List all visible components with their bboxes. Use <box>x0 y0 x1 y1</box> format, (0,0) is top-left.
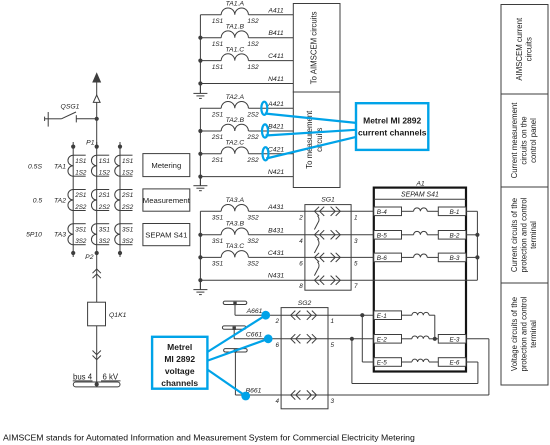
svg-text:1S2: 1S2 <box>122 170 134 177</box>
protection terminal A1 outline <box>374 180 466 371</box>
svg-text:2S1: 2S1 <box>74 192 86 199</box>
svg-text:3S2: 3S2 <box>247 261 259 268</box>
collector wire section TA1 <box>199 15 201 94</box>
SG2 row 2 contacts <box>281 334 328 343</box>
disconnect switch QSG1 <box>45 112 99 127</box>
svg-text:2S2: 2S2 <box>246 157 259 164</box>
junction E-6 return on pin5 wire <box>350 337 354 341</box>
svg-text:Metrel: Metrel <box>167 342 192 352</box>
coil E-5 <box>402 359 439 362</box>
CT TA3.C secondary winding <box>221 243 248 257</box>
svg-text:B-2: B-2 <box>450 232 460 239</box>
svg-text:1S1: 1S1 <box>75 158 86 165</box>
svg-text:TA3.B: TA3.B <box>226 221 245 228</box>
CT TA1.C secondary winding <box>221 46 248 60</box>
busbar bus 4, 6 kV <box>73 372 121 387</box>
junction on collector row B411 <box>198 36 202 40</box>
SG1 linkage hook 1 <box>314 216 319 230</box>
svg-text:E-1: E-1 <box>377 313 387 320</box>
svg-text:N421: N421 <box>268 169 284 176</box>
svg-text:bus 4: bus 4 <box>73 372 93 381</box>
pin 31 of TA3.B <box>212 238 223 245</box>
wire and coil B-4 to B-1 <box>402 208 439 211</box>
junction B-3 return <box>475 255 479 259</box>
CT TA1.B secondary winding <box>221 24 248 38</box>
svg-text:Measurement: Measurement <box>143 196 191 205</box>
svg-text:5P10: 5P10 <box>26 232 42 239</box>
pin 11 of TA1.C <box>212 64 223 71</box>
junction on collector row C421 <box>198 152 202 156</box>
wire B431 <box>249 227 305 235</box>
svg-text:AIMSCEM current: AIMSCEM current <box>515 17 524 81</box>
junction on collector row C431 <box>198 255 202 259</box>
svg-text:Current measurement: Current measurement <box>510 102 519 179</box>
callout line probe A661 <box>207 315 266 352</box>
junction dot top of phase 1 <box>71 145 75 149</box>
wire current return collector <box>351 211 477 280</box>
terminal E-5 <box>374 358 402 367</box>
junction on collector row B431 <box>198 233 202 237</box>
svg-text:A661: A661 <box>246 308 263 315</box>
wire B-3 output <box>466 256 477 258</box>
phase conductor 3 of CT bank <box>119 142 121 257</box>
pin 32 of TA3.A <box>247 215 259 222</box>
feeder line arrow (incoming supply) <box>92 72 101 95</box>
legend box current measurement circuits <box>501 94 548 187</box>
svg-text:3: 3 <box>331 398 335 405</box>
CT TA1 phase B winding <box>91 155 109 176</box>
CT designator TA2 <box>54 197 66 204</box>
SG2 pin 3 <box>331 398 335 405</box>
svg-text:5: 5 <box>354 260 358 267</box>
wire: main feeder upper <box>96 119 98 147</box>
CT TA2 phase B winding <box>91 190 109 211</box>
svg-text:1S1: 1S1 <box>212 41 223 48</box>
svg-text:3S2: 3S2 <box>247 215 259 222</box>
wire A431 <box>249 204 305 212</box>
wire B431 left segment <box>200 234 221 236</box>
CT designator TA1 <box>54 164 66 171</box>
wire B421 <box>249 124 294 132</box>
callout line clamp B421 <box>266 130 356 136</box>
box To AIMSCEM circuits <box>293 4 340 93</box>
CT TA2 phase C winding <box>115 190 133 211</box>
voltage probe dot A661 <box>261 311 270 320</box>
coil E-1 and link down <box>402 312 435 338</box>
wire B421 left segment <box>200 130 221 132</box>
box SEPAM S41 <box>143 224 190 246</box>
svg-text:C421: C421 <box>268 146 284 153</box>
svg-text:2S1: 2S1 <box>211 134 223 141</box>
svg-text:TA2.B: TA2.B <box>226 117 245 124</box>
svg-text:1S2: 1S2 <box>247 41 259 48</box>
wire C411 left segment <box>200 60 221 62</box>
SG1 pin 7 <box>354 283 358 290</box>
svg-text:1S2: 1S2 <box>75 170 87 177</box>
node P2 <box>85 251 99 261</box>
svg-text:voltage: voltage <box>165 366 195 376</box>
junction dot bottom of phase 1 <box>71 251 75 255</box>
coil E-2 <box>402 336 435 339</box>
svg-text:MI 2892: MI 2892 <box>164 354 195 364</box>
terminal B-1 <box>438 207 466 216</box>
svg-text:Current circuits of the: Current circuits of the <box>510 198 519 272</box>
svg-text:3S2: 3S2 <box>247 238 259 245</box>
wire SG2 pin 5 to E-2 <box>328 338 374 340</box>
wire SG1 pin 1 to A1 <box>351 210 374 212</box>
svg-text:protection and control: protection and control <box>520 296 529 371</box>
svg-text:6: 6 <box>299 260 303 267</box>
terminal B-3 <box>438 253 466 262</box>
accuracy class label 0.5S <box>28 164 42 171</box>
wire C431 left segment <box>200 256 221 258</box>
terminal B-2 <box>438 231 466 240</box>
current clamp ellipse on B421 <box>262 124 268 137</box>
svg-text:5: 5 <box>331 342 335 349</box>
svg-text:P1: P1 <box>86 140 95 147</box>
svg-text:3S1: 3S1 <box>99 226 110 233</box>
wire: feeder below Q1K1 <box>96 326 98 382</box>
svg-text:terminal: terminal <box>529 221 538 249</box>
box To measurement circuits <box>293 92 340 188</box>
wire N421 (neutral) <box>200 169 293 177</box>
SG1 row 1 contacts <box>305 207 351 216</box>
SG2 row 3 contacts <box>281 390 328 399</box>
pin 22 of TA2.A <box>246 112 259 119</box>
svg-text:1: 1 <box>331 318 335 325</box>
detachable connection chevrons (lower) <box>93 351 101 360</box>
svg-text:1S2: 1S2 <box>247 18 259 25</box>
junction on collector neutral N431 <box>198 278 202 282</box>
svg-text:1S1: 1S1 <box>99 158 110 165</box>
svg-text:1S1: 1S1 <box>212 64 223 71</box>
svg-text:2S1: 2S1 <box>98 192 110 199</box>
SG1 pin 4 <box>299 238 303 245</box>
pin 32 of TA3.C <box>247 261 259 268</box>
svg-text:8: 8 <box>299 283 303 290</box>
wire B661 <box>235 388 281 395</box>
svg-text:3S2: 3S2 <box>122 238 134 245</box>
SG1 pin 8 <box>299 283 303 290</box>
junction B-2 return <box>475 233 479 237</box>
svg-text:2S2: 2S2 <box>121 204 134 211</box>
pin label 2S1/2S2 TA2 phase B <box>98 192 111 211</box>
svg-text:A431: A431 <box>267 204 284 211</box>
wire SG1 pin 3 to A1 <box>351 234 374 236</box>
svg-text:4: 4 <box>299 238 303 245</box>
svg-text:N431: N431 <box>268 273 284 280</box>
svg-text:0.5: 0.5 <box>33 197 43 204</box>
SG2 pin 6 <box>275 342 279 349</box>
SG2 row 1 contacts <box>281 311 328 320</box>
wire and coil B-5 to B-2 <box>402 231 439 234</box>
SG1 pin 5 <box>354 260 358 267</box>
terminal B-5 <box>374 231 402 240</box>
wire B411 <box>249 30 294 38</box>
svg-text:TA2.C: TA2.C <box>225 140 244 147</box>
svg-text:C411: C411 <box>268 53 284 60</box>
svg-text:protection and control: protection and control <box>520 197 529 272</box>
CT TA2.A secondary winding <box>221 94 248 108</box>
svg-text:SEPAM S41: SEPAM S41 <box>401 192 439 199</box>
CT TA1 phase A winding <box>68 155 86 176</box>
CT designator TA3 <box>54 232 66 239</box>
svg-text:3S2: 3S2 <box>99 238 111 245</box>
phase conductor 2 of CT bank <box>96 142 98 257</box>
svg-text:N411: N411 <box>268 76 284 83</box>
svg-text:TA2.A: TA2.A <box>226 94 245 101</box>
svg-text:1S1: 1S1 <box>212 18 223 25</box>
svg-text:SG1: SG1 <box>321 197 335 204</box>
svg-text:E-3: E-3 <box>450 336 460 343</box>
CT TA3.A secondary winding <box>221 197 248 211</box>
detachable connection chevrons (upper) <box>93 269 101 278</box>
SG2 pin 5 <box>331 342 335 349</box>
svg-text:P2: P2 <box>85 254 94 261</box>
pin 22 of TA2.B <box>246 134 259 141</box>
callout box Metrel MI 2892 voltage channels <box>152 337 207 389</box>
svg-text:C431: C431 <box>268 250 284 257</box>
svg-text:channels: channels <box>161 378 198 388</box>
svg-text:current channels: current channels <box>358 128 427 138</box>
caption note <box>3 433 415 443</box>
svg-text:3S2: 3S2 <box>75 238 87 245</box>
svg-text:B-6: B-6 <box>377 255 387 262</box>
svg-text:3: 3 <box>354 238 358 245</box>
CT TA3 phase A winding <box>68 224 86 245</box>
pin label 3S1/3S2 TA3 phase B <box>99 226 111 245</box>
phase conductor 1 of CT bank <box>72 142 74 257</box>
svg-text:A411: A411 <box>267 7 284 14</box>
ground symbol section TA3 <box>193 280 207 294</box>
pin 12 of TA1.A <box>247 18 259 25</box>
svg-text:E-6: E-6 <box>450 360 460 367</box>
wire C421 <box>249 146 294 154</box>
ground symbol section TA2 <box>193 177 207 191</box>
svg-text:B-3: B-3 <box>450 255 460 262</box>
collector wire section TA3 <box>199 211 201 289</box>
legend box AIMSCEM current circuits <box>501 5 548 95</box>
pin 31 of TA3.C <box>212 261 223 268</box>
SG1 pin 3 <box>354 238 358 245</box>
svg-text:TA2: TA2 <box>54 197 66 204</box>
CT TA3.B secondary winding <box>221 221 248 235</box>
wire E-6 return to pin5 wire <box>352 339 478 384</box>
callout line clamp A421 <box>265 114 356 123</box>
CT TA3 phase B winding <box>91 224 109 245</box>
SG1 pin 1 <box>354 214 358 221</box>
pin 21 of TA2.A <box>211 112 223 119</box>
SG1 linkage hook 3 <box>314 262 319 276</box>
svg-text:6: 6 <box>275 342 279 349</box>
svg-text:3S1: 3S1 <box>122 226 133 233</box>
test block SG1 <box>305 197 351 291</box>
svg-text:SG2: SG2 <box>298 300 312 307</box>
svg-text:terminal: terminal <box>529 320 538 348</box>
svg-text:3S1: 3S1 <box>75 226 86 233</box>
SG1 row 2 contacts <box>305 230 351 239</box>
svg-text:2: 2 <box>274 318 279 325</box>
svg-text:To AIMSCEM circuits: To AIMSCEM circuits <box>310 11 319 84</box>
wire C411 <box>249 53 294 61</box>
junction on collector neutral N411 <box>198 81 202 85</box>
svg-text:2S2: 2S2 <box>246 134 259 141</box>
legend box current circuits of terminal <box>501 187 548 283</box>
wire: feeder below P2 <box>96 257 98 302</box>
svg-text:2S1: 2S1 <box>121 192 133 199</box>
svg-text:AIMSCEM stands for Automated I: AIMSCEM stands for Automated Information… <box>3 433 415 443</box>
wire N411 (neutral) <box>200 76 293 84</box>
svg-text:SEPAM S41: SEPAM S41 <box>145 231 187 240</box>
current clamp ellipse on C421 <box>263 147 269 160</box>
wire N431 (neutral) <box>200 273 305 281</box>
voltage tap bar A661 <box>223 301 247 315</box>
svg-text:1S1: 1S1 <box>122 158 133 165</box>
terminal E-1 <box>374 311 402 320</box>
accuracy class label 0.5 <box>33 197 43 204</box>
wire A411 <box>249 7 294 15</box>
svg-text:A1: A1 <box>415 180 425 187</box>
svg-text:B421: B421 <box>268 124 284 131</box>
junction on collector row C411 <box>198 59 202 63</box>
pin label 3S1/3S2 TA3 phase C <box>122 226 134 245</box>
terminal B-4 <box>374 207 402 216</box>
terminal E-3 <box>438 335 466 344</box>
SG1 row 3 contacts <box>305 253 351 262</box>
pin label 2S1/2S2 TA2 phase A <box>74 192 87 211</box>
wire B411 left segment <box>200 37 221 39</box>
junction dot bottom of phase 3 <box>118 251 122 255</box>
svg-text:TA1.B: TA1.B <box>226 24 245 31</box>
label QSG1 <box>61 104 80 111</box>
pin 21 of TA2.C <box>211 157 223 164</box>
svg-text:B-1: B-1 <box>450 209 460 216</box>
callout line clamp C421 <box>266 137 356 159</box>
wire B-1 output <box>466 210 477 212</box>
svg-text:E-2: E-2 <box>377 336 387 343</box>
svg-text:2S1: 2S1 <box>211 157 223 164</box>
svg-text:TA1: TA1 <box>54 164 66 171</box>
accuracy class label 5P10 <box>26 232 42 239</box>
svg-text:TA1.C: TA1.C <box>225 46 244 53</box>
svg-text:QSG1: QSG1 <box>61 104 80 111</box>
wire C431 <box>249 250 305 258</box>
svg-text:1S2: 1S2 <box>99 170 111 177</box>
callout line probe C661 <box>207 339 269 361</box>
svg-text:C661: C661 <box>246 332 262 339</box>
pin 12 of TA1.C <box>247 64 259 71</box>
test block SG2 <box>281 300 328 409</box>
svg-text:2S1: 2S1 <box>211 112 223 119</box>
svg-text:circuits on the: circuits on the <box>520 116 529 164</box>
terminal E-6 <box>438 358 466 367</box>
SG2 pin 4 <box>275 398 279 405</box>
pin 11 of TA1.A <box>212 18 223 25</box>
svg-text:control panel: control panel <box>529 118 538 163</box>
wire E-3 return to SG2 pin 3 <box>328 339 489 395</box>
svg-text:TA1.A: TA1.A <box>226 1 245 8</box>
svg-text:TA3.A: TA3.A <box>226 197 245 204</box>
ground symbol section TA1 <box>193 84 207 99</box>
junction on collector neutral N421 <box>198 175 202 179</box>
callout box Metrel MI 2892 current channels <box>356 103 428 150</box>
junction to E-5 branch <box>360 313 374 362</box>
pin 11 of TA1.B <box>212 41 223 48</box>
voltage tap bar B661 <box>224 349 248 395</box>
voltage probe dot C661 <box>264 334 273 343</box>
svg-text:7: 7 <box>354 283 358 290</box>
box Metering <box>143 154 190 177</box>
svg-text:circuits: circuits <box>524 37 533 61</box>
svg-text:E-5: E-5 <box>377 360 387 367</box>
svg-text:B-4: B-4 <box>377 209 387 216</box>
svg-text:Voltage circuits of the: Voltage circuits of the <box>510 297 519 371</box>
pin 21 of TA2.B <box>211 134 223 141</box>
A1 header SEPAM S41 <box>374 192 466 200</box>
terminal E-2 <box>374 335 402 344</box>
pin label 1S1/1S2 TA1 phase B <box>99 158 111 177</box>
svg-text:4: 4 <box>275 398 279 405</box>
CT TA2 phase A winding <box>68 190 86 211</box>
wire SG1 pin 5 to A1 <box>351 256 374 258</box>
CT TA3 phase C winding <box>115 224 133 245</box>
CT TA1.A secondary winding <box>221 1 248 15</box>
svg-text:TA3: TA3 <box>54 232 66 239</box>
svg-text:3S1: 3S1 <box>212 261 223 268</box>
svg-text:2S2: 2S2 <box>74 204 87 211</box>
svg-text:0.5S: 0.5S <box>28 164 42 171</box>
svg-text:Metrel MI 2892: Metrel MI 2892 <box>363 116 421 126</box>
svg-text:6 kV: 6 kV <box>103 372 119 381</box>
pin label 2S1/2S2 TA2 phase C <box>121 192 134 211</box>
circuit breaker Q1K1 <box>88 302 127 326</box>
SG1 pin 6 <box>299 260 303 267</box>
svg-text:3S1: 3S1 <box>212 238 223 245</box>
SG2 pin 1 <box>331 318 335 325</box>
voltage tap bar C661 <box>222 326 246 339</box>
pin label 1S1/1S2 TA1 phase C <box>122 158 134 177</box>
pin 32 of TA3.B <box>247 238 259 245</box>
box Measurement <box>143 189 191 211</box>
pin label 1S1/1S2 TA1 phase A <box>75 158 87 177</box>
node P1 <box>86 140 99 149</box>
wire A411 left segment <box>200 14 221 16</box>
wire A421 left segment <box>200 107 221 109</box>
svg-text:2: 2 <box>298 214 303 221</box>
wire B-2 output <box>466 234 477 236</box>
junction E1/E2 coils <box>433 337 439 341</box>
wire A421 <box>249 101 294 109</box>
wire SG2 pin 1 to E-1 <box>328 314 374 316</box>
CT TA2.B secondary winding <box>221 117 248 131</box>
svg-text:B411: B411 <box>268 30 284 37</box>
svg-text:2S2: 2S2 <box>98 204 111 211</box>
svg-text:1S2: 1S2 <box>247 64 259 71</box>
junction on collector row B421 <box>198 129 202 133</box>
pin 31 of TA3.A <box>212 215 223 222</box>
collector wire section TA2 <box>199 108 201 185</box>
CT TA1 phase C winding <box>115 155 133 176</box>
callout line probe B661 <box>207 369 246 396</box>
wire A431 left segment <box>200 210 221 212</box>
wire A661 <box>235 308 281 315</box>
current clamp ellipse on A421 <box>261 102 267 115</box>
svg-text:Q1K1: Q1K1 <box>109 312 127 319</box>
SG1 row 4 contacts <box>305 276 351 285</box>
svg-text:1: 1 <box>354 214 358 221</box>
CT TA2.C secondary winding <box>221 140 248 154</box>
pin 12 of TA1.B <box>247 41 259 48</box>
